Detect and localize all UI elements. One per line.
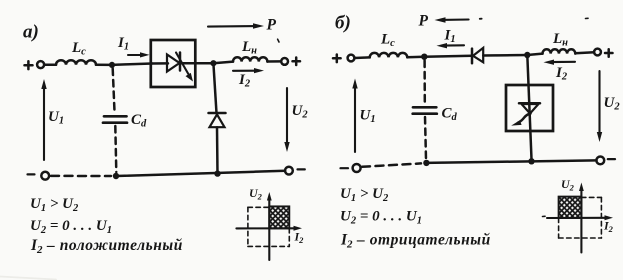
input terminal circle top-left A <box>37 61 44 68</box>
chart A: vertical axis <box>267 192 272 260</box>
bottom wire solid A <box>116 171 285 176</box>
plus terminal left A <box>25 61 33 69</box>
arrow I1 B (left) <box>437 43 465 48</box>
output terminal circle top-right A <box>281 58 288 65</box>
svg-text:U2 = 0 . . . U1: U2 = 0 . . . U1 <box>30 218 112 236</box>
arrow U1 B <box>352 79 357 153</box>
minus terminal left A <box>28 173 35 175</box>
inductor Lh A <box>233 57 267 61</box>
bottom terminal circle left A <box>41 172 49 180</box>
dashed bottom wire left B <box>362 163 421 166</box>
svg-text:I2: I2 <box>238 72 251 90</box>
svg-text:Lc: Lc <box>380 32 395 50</box>
inductor Lh B <box>543 49 576 53</box>
wire Lh to right terminal A <box>267 60 281 63</box>
wire terminal to Lc <box>44 64 56 67</box>
valve control arrow B <box>511 114 530 126</box>
arrow I2 A <box>233 68 264 73</box>
node junction A2 <box>210 60 216 66</box>
wire node1 to valve box A <box>112 64 152 65</box>
valve branch wire B <box>527 55 531 159</box>
chart B: dashed region <box>559 197 602 238</box>
controlled valve box U1 (rect) <box>151 40 196 87</box>
inductor Lc B <box>370 53 408 58</box>
svg-text:I1: I1 <box>444 28 456 46</box>
valve control arrow A <box>176 53 193 82</box>
svg-text:а): а) <box>23 22 39 43</box>
capacitor Cd bottom plate B <box>413 112 437 115</box>
svg-text:Cd: Cd <box>442 106 458 124</box>
arrow U1 A <box>41 79 46 160</box>
freewheel diode triangle A <box>210 114 225 127</box>
wire diode to node B2 <box>483 54 527 57</box>
arrow U2 A <box>284 88 289 152</box>
valve diode cathode bar A <box>179 53 182 71</box>
valve diode triangle A <box>167 55 180 72</box>
node junction B2 <box>524 52 530 58</box>
svg-text:б): б) <box>335 13 351 34</box>
svg-text:P: P <box>267 17 277 34</box>
wire terminal to Lc B <box>355 56 370 59</box>
wire Lc to node1 A <box>96 64 112 67</box>
valve diode cathode bar B <box>519 102 540 105</box>
node junction bottom A1 <box>113 173 119 179</box>
capacitor branch dashed upper A <box>113 69 115 112</box>
wire node B2 to Lh B <box>527 54 542 55</box>
chart A: hatched square <box>269 206 289 228</box>
svg-text:U2: U2 <box>292 103 309 121</box>
capacitor Cd top plate B <box>413 106 436 109</box>
node junction bottom B2 <box>528 158 534 164</box>
minus terminal right A <box>298 168 305 170</box>
svg-text:I2: I2 <box>294 230 305 246</box>
svg-text:U2: U2 <box>249 186 263 202</box>
wire node2 to Lh A <box>213 62 233 64</box>
freewheel diode branch wire upper A <box>213 63 216 113</box>
controlled valve box B (rect) <box>506 85 553 131</box>
wire box to node2 A <box>180 62 213 65</box>
scan streak <box>0 277 56 280</box>
wire inside box A <box>152 62 168 65</box>
svg-text:Lн: Lн <box>552 31 568 49</box>
bottom terminal circle right A <box>285 167 293 175</box>
chart A: dashed region <box>248 207 289 246</box>
stray dot B <box>480 18 482 20</box>
node junction B1 <box>421 54 427 60</box>
svg-text:I1: I1 <box>117 35 129 53</box>
svg-text:U2: U2 <box>604 95 621 113</box>
bottom wire solid B <box>426 160 596 163</box>
capacitor Cd bottom plate A <box>103 121 127 124</box>
inductor Lc A <box>56 60 96 65</box>
chart B: vertical axis <box>579 183 584 253</box>
input terminal circle top-left B <box>348 55 355 62</box>
svg-text:I2 – отрицательный: I2 – отрицательный <box>340 232 491 251</box>
minus terminal right B <box>608 158 615 160</box>
wire node B1 to diode <box>424 55 472 58</box>
svg-text:I2: I2 <box>555 65 568 83</box>
freewheel diode branch wire lower A <box>216 127 219 173</box>
capacitor branch dashed lower B <box>425 117 426 159</box>
wire Lc to node B1 <box>407 55 424 58</box>
chart B: horizontal axis <box>547 215 613 220</box>
node junction bottom B1 <box>423 160 429 166</box>
svg-text:U1: U1 <box>360 108 376 126</box>
bottom terminal circle left B <box>353 164 361 172</box>
plus terminal right A <box>293 58 301 66</box>
arrow P A <box>208 23 264 28</box>
capacitor branch dashed upper B <box>423 61 426 104</box>
svg-text:U1 > U2: U1 > U2 <box>340 186 389 204</box>
output terminal circle top-right B <box>594 49 601 56</box>
arrow P B (left) <box>435 17 469 22</box>
svg-text:I2 – положительный: I2 – положительный <box>30 237 183 256</box>
stray mark A <box>278 39 279 42</box>
node junction A1 <box>109 62 115 68</box>
svg-text:U2: U2 <box>561 177 575 193</box>
series diode cathode bar B <box>471 49 474 64</box>
bottom terminal circle right B <box>596 157 604 165</box>
stray mark near chart B <box>543 215 546 217</box>
svg-text:U1: U1 <box>48 109 64 127</box>
arrow U2 B <box>597 71 602 142</box>
plus terminal right B <box>605 49 613 57</box>
node junction bottom A2 <box>214 170 220 176</box>
svg-text:Lн: Lн <box>241 39 257 57</box>
stray dot top-right B <box>586 17 589 19</box>
svg-text:Cd: Cd <box>131 112 147 130</box>
svg-text:I2: I2 <box>603 219 614 235</box>
freewheel diode cathode bar A <box>209 112 226 115</box>
wire Lh to right terminal B <box>575 52 594 53</box>
svg-text:Lc: Lc <box>71 40 86 58</box>
series diode triangle B (points left) <box>473 48 483 62</box>
svg-text:U2 = 0 . . . U1: U2 = 0 . . . U1 <box>340 209 422 227</box>
chart B: hatched square <box>559 197 582 218</box>
chart A: horizontal axis <box>236 226 302 231</box>
capacitor branch dashed lower A <box>115 126 116 172</box>
arrow I2 B (left) <box>544 60 576 65</box>
valve diode triangle B (points down) <box>522 104 539 114</box>
svg-text:P: P <box>419 13 429 30</box>
capacitor Cd top plate A <box>104 115 127 118</box>
arrow I1 A <box>128 52 150 57</box>
dashed bottom wire left A <box>51 175 111 178</box>
plus terminal left B <box>333 55 341 63</box>
svg-text:U1 > U2: U1 > U2 <box>30 196 79 214</box>
minus terminal left B <box>341 167 349 169</box>
